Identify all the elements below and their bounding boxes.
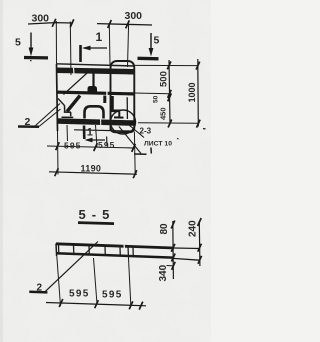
left funnel thick diagonal — [67, 96, 80, 112]
slab bottom line — [56, 253, 173, 257]
left foot profile — [62, 105, 74, 117]
tick t4 — [126, 20, 130, 28]
left edge extension down — [57, 131, 60, 175]
tick t1 — [52, 19, 56, 27]
right inner vertical — [126, 97, 128, 119]
slab right edge — [127, 246, 129, 257]
ticks — [59, 299, 63, 307]
extension x56.5 — [55, 21, 57, 64]
scan artifacts — [73, 68, 76, 75]
left funnel thin diagonal — [58, 99, 65, 106]
extension x128 — [128, 24, 129, 67]
middle extension — [94, 258, 98, 304]
dim line top — [28, 23, 152, 25]
right edge extension down — [128, 256, 130, 305]
right bearing post — [110, 96, 114, 111]
section marker 5 left: bar — [24, 56, 48, 60]
slab left edge — [55, 244, 58, 257]
dowel stubs — [58, 245, 60, 254]
mid extension — [134, 92, 170, 95]
crossing ticks — [171, 244, 175, 252]
seat line below — [74, 130, 131, 131]
right dim inner line — [169, 60, 170, 124]
web diagonal — [64, 69, 93, 95]
third extension — [167, 265, 174, 267]
right dim line 1 — [172, 221, 175, 279]
tick t2 — [70, 19, 74, 27]
detail leader 1 — [119, 127, 141, 154]
tick t3 — [108, 20, 112, 28]
body top edge — [57, 64, 135, 66]
bottom dim line 2 — [49, 172, 137, 174]
paper noise — [0, 0, 1, 1]
section bottom dim line — [46, 303, 146, 306]
right bearing step — [111, 110, 120, 113]
web band (dark) — [57, 91, 134, 96]
leader 2 line a — [36, 104, 61, 126]
title underline — [78, 223, 114, 224]
top ticks — [171, 221, 175, 229]
detail leader 2 — [126, 122, 145, 138]
tick — [56, 142, 60, 150]
body right edge extension down — [133, 132, 136, 176]
section marker 5 left: arrow — [30, 33, 32, 53]
pile rounded rect — [111, 61, 135, 132]
right dim line 2 — [198, 221, 201, 266]
right dim outer line — [197, 59, 200, 127]
nub on band — [88, 86, 98, 92]
bottom band (dark) — [57, 118, 134, 126]
detail circle — [111, 110, 136, 134]
top flange band (dark) — [57, 68, 134, 75]
bottom extension — [138, 122, 199, 125]
anchor bolt — [92, 69, 94, 87]
section 1 bottom arrow — [87, 139, 106, 141]
section line 1 bottom stub — [83, 126, 86, 140]
ticks outer — [196, 62, 200, 70]
stubs — [66, 125, 69, 141]
extension x70.5 — [69, 22, 72, 76]
section marker 5 right: arrow — [150, 33, 152, 53]
top edge extension right — [134, 64, 199, 66]
central arch — [85, 106, 104, 118]
section line 1 top stub — [79, 45, 82, 62]
left extension down — [57, 256, 61, 306]
section 1 top arrow — [84, 47, 107, 49]
paper background — [0, 0, 211, 342]
body left edge — [57, 64, 58, 131]
section marker 5 right: bar — [138, 57, 159, 61]
leader 2 line b — [39, 109, 61, 127]
bottom dim line 1 — [47, 146, 135, 148]
extension x109.5 — [108, 23, 111, 65]
ticks inner — [167, 61, 171, 69]
slab top line — [56, 244, 174, 248]
